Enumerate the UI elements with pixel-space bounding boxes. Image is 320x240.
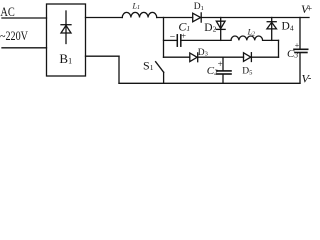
wire L2 to corner bbox=[263, 39, 279, 41]
svg-text:D1: D1 bbox=[194, 2, 204, 12]
inductor L2 bbox=[231, 36, 263, 40]
diode D2 vertical bbox=[220, 18, 222, 41]
wire middle branch to C1 bbox=[164, 39, 178, 41]
svg-text:+: + bbox=[307, 5, 312, 15]
svg-text:+: + bbox=[181, 30, 186, 40]
diode D5 bbox=[244, 53, 251, 62]
diode inside B1 bbox=[65, 11, 67, 44]
svg-text:D2: D2 bbox=[204, 22, 216, 34]
capacitor C2 vertical bbox=[222, 57, 224, 70]
svg-text:−: − bbox=[170, 32, 176, 43]
switch S1 blade bbox=[156, 62, 164, 73]
svg-text:D4: D4 bbox=[282, 21, 294, 33]
svg-text:+: + bbox=[218, 59, 223, 69]
wire AC input bottom bbox=[2, 47, 47, 49]
svg-text:D3: D3 bbox=[198, 48, 208, 58]
svg-text:AC: AC bbox=[0, 4, 14, 19]
svg-text:+: + bbox=[295, 41, 300, 50]
bridge rectifier B1 box bbox=[47, 4, 86, 76]
wire bottom rail bbox=[119, 82, 300, 84]
wire lower branch bbox=[164, 56, 190, 58]
wire D1 to right rail bbox=[201, 17, 309, 19]
svg-text:D5: D5 bbox=[242, 67, 252, 77]
wire C1 to L2 bbox=[181, 39, 231, 41]
svg-text:C3: C3 bbox=[287, 48, 298, 60]
capacitor C3 plates bbox=[294, 48, 308, 50]
svg-text:S1: S1 bbox=[143, 58, 154, 72]
svg-text:C2: C2 bbox=[207, 65, 218, 77]
wire right rail upper bbox=[299, 18, 301, 49]
svg-text:L1: L1 bbox=[132, 1, 140, 11]
diode D4 vertical bbox=[271, 18, 273, 41]
capacitor C1 plates bbox=[176, 35, 178, 46]
inductor L1 bbox=[122, 12, 156, 17]
wire AC input top bbox=[2, 17, 47, 19]
wire B1 lower exit bbox=[86, 55, 120, 57]
svg-text:B1: B1 bbox=[59, 51, 72, 66]
svg-text:L2: L2 bbox=[247, 28, 255, 38]
svg-text:-: - bbox=[308, 73, 311, 84]
diode D1 bbox=[193, 13, 201, 22]
wire node vertical at x163.5 bbox=[163, 18, 165, 58]
wire top rail from B1 to L1 bbox=[86, 17, 123, 19]
wire corner drop bbox=[278, 40, 280, 57]
svg-text:~220V: ~220V bbox=[0, 28, 28, 43]
diode D3 bbox=[190, 53, 197, 62]
wire L1 to D1 bbox=[157, 17, 193, 19]
wire right rail lower bbox=[299, 53, 301, 84]
